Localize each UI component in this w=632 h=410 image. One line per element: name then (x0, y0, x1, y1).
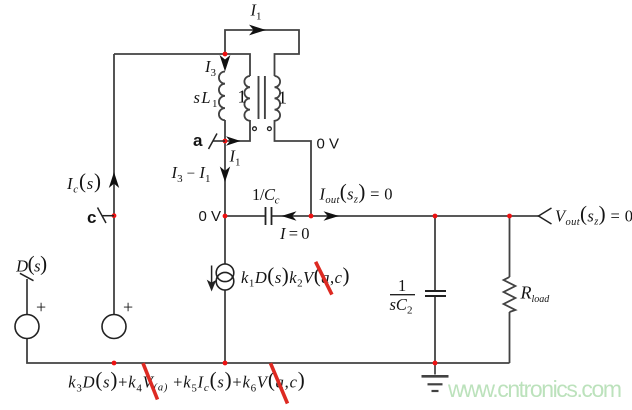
svg-text:+: + (123, 297, 133, 317)
svg-text:a: a (193, 131, 203, 150)
arrow Ic up (109, 172, 119, 188)
probe mark Vout (539, 208, 552, 224)
wire top loop (225, 30, 299, 76)
arrow I=0 left (282, 211, 297, 220)
arrow Iout right (324, 211, 340, 220)
current source arrow (208, 266, 215, 290)
node a dot (223, 139, 228, 144)
svg-text:0 V: 0 V (199, 208, 222, 225)
node 0V dot (223, 214, 228, 219)
node Rload top dot (507, 214, 512, 219)
wire left column (113, 54, 115, 314)
svg-text:Rload: Rload (520, 283, 551, 306)
wire 0V rail (225, 215, 539, 217)
svg-text:Iout(sz) = 0: Iout(sz) = 0 (319, 180, 393, 207)
label 1/sC2 fraction (390, 276, 416, 317)
svg-text:1/Cc: 1/Cc (252, 185, 280, 207)
red slash bottom formula 1 (143, 363, 158, 399)
wire current source lower (224, 290, 226, 363)
capacitor 1/Cc (266, 207, 272, 225)
probe mark node a (209, 134, 226, 150)
transformer primary winding (244, 76, 250, 121)
arrow I3 down (220, 55, 231, 72)
wire main vertical a-branch (224, 120, 226, 264)
svg-text:I1: I1 (229, 147, 241, 169)
node rail source dot (223, 361, 228, 366)
node Iout dot (309, 214, 314, 219)
wire bottom rail (27, 339, 510, 364)
polarity dot secondary (268, 127, 272, 131)
capacitor 1/sC2 (425, 291, 446, 296)
arrow I1 down mid (220, 167, 230, 183)
svg-text:1: 1 (278, 88, 287, 108)
svg-text:+: + (36, 297, 46, 317)
svg-text:I3 − I1: I3 − I1 (171, 163, 211, 185)
red slash bottom formula 2 (271, 363, 288, 403)
wire C2 branch lower (434, 296, 436, 363)
svg-text:1: 1 (398, 276, 406, 295)
probe mark D(s) (20, 273, 34, 280)
svg-text:www.cntronics.com: www.cntronics.com (447, 376, 622, 402)
svg-text:k1D(s)k2V(a,c): k1D(s)k2V(a,c) (241, 263, 350, 290)
svg-text:I3: I3 (204, 57, 217, 79)
svg-text:sC2: sC2 (390, 295, 413, 317)
wire top horizontal (114, 54, 250, 76)
node dot junction top (223, 52, 228, 57)
polarity dot primary (253, 127, 257, 131)
node rail gnd dot (433, 361, 438, 366)
node c dot (112, 213, 117, 218)
svg-text:I1: I1 (250, 1, 262, 23)
wire D(s) lead (26, 279, 28, 315)
svg-text:Vout(sz) = 0: Vout(sz) = 0 (555, 202, 632, 229)
svg-text:c: c (87, 208, 96, 227)
wire a to primary (225, 120, 250, 141)
svg-text:sL1: sL1 (194, 88, 218, 110)
node rail Ic dot (112, 361, 117, 366)
arrow I1 top (249, 25, 266, 36)
transformer secondary winding (275, 76, 281, 121)
red slash over source label (a) (316, 262, 332, 295)
svg-text:D(s): D(s) (15, 252, 47, 276)
wire secondary bottom (275, 120, 312, 216)
probe mark node c (98, 208, 115, 224)
voltage source Ic (102, 315, 126, 339)
svg-text:I = 0: I = 0 (279, 224, 310, 243)
svg-text:Ic(s): Ic(s) (66, 169, 101, 196)
inductor sL1 (219, 72, 225, 121)
wire C2 branch upper (434, 216, 436, 291)
arrow node a right (226, 136, 241, 145)
svg-text:k3D(s)+k4V(a) +k5Ic(s)+k6V(a,c: k3D(s)+k4V(a) +k5Ic(s)+k6V(a,c) (68, 368, 305, 395)
wire Rload branch (509, 216, 511, 363)
node C2 top dot (433, 214, 438, 219)
svg-text:0 V: 0 V (317, 136, 340, 153)
transformer core (259, 76, 265, 119)
current source k1D(s)k2V(a,c) (216, 264, 234, 290)
ground (422, 363, 449, 391)
svg-text:1: 1 (238, 87, 247, 107)
voltage source D(s) (15, 315, 39, 339)
resistor Rload (504, 277, 516, 312)
